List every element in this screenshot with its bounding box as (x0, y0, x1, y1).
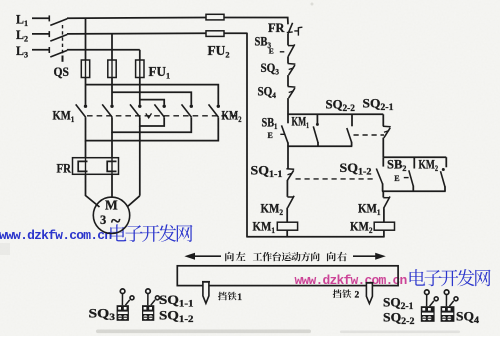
wire L1 feeder to KM2 contact 3 (86, 85, 219, 105)
contactor KM1 main contact 2 (110, 105, 113, 108)
wire phase U to FR (85, 141, 87, 158)
wire L2 feeder to KM2 contact 2 (112, 92, 191, 104)
limit switch SQ1-1 NC contact (287, 146, 289, 169)
FR thermal linkage symbol (294, 27, 302, 35)
wire SQ4 to branch node (287, 98, 289, 114)
stop dog 1 (dang-tie 1) (203, 282, 209, 303)
limit switch SQ2-1 NC contact (382, 114, 384, 126)
start button SB2 NO contact (413, 157, 415, 168)
wire FR to motor V (111, 174, 113, 198)
wire L1 lead (32, 17, 49, 19)
stop button SB3 NC contact (288, 45, 294, 47)
limit switch SQ4 NC contact (288, 86, 296, 89)
left control rail (246, 33, 248, 237)
FR heater element 2 (107, 161, 116, 171)
wire FU2-2 to left rail (224, 32, 247, 34)
wire SQ3 to SQ4 (287, 75, 289, 86)
switch QS pole 3 (48, 47, 50, 53)
contactor KM2 main contact 3 (217, 105, 220, 108)
wire FR to SB3 (287, 34, 289, 46)
svg-text:~: ~ (111, 211, 121, 231)
wire SQ1-1 to KM2 interlock (286, 180, 288, 197)
fuse FU2 element 1 (206, 14, 224, 20)
left direction arrow (191, 255, 221, 257)
wire L3 feeder to KM2 contact 1 (140, 100, 164, 105)
contactor coil KM2 (374, 222, 394, 230)
switch QS pole 1 (48, 15, 50, 21)
branch top wire (287, 113, 383, 115)
worktable rectangle (177, 266, 398, 286)
contactor KM1 main contact 3 (138, 105, 141, 108)
auxiliary contact KM2 NO (445, 157, 447, 167)
QS linkage dashed line (62, 25, 64, 55)
limit switch SQ4 device icon (445, 295, 447, 307)
svg-text:E: E (268, 131, 273, 140)
contactor coil KM1 (277, 222, 297, 230)
fuse FU1 element 2 (108, 60, 116, 78)
motor M circle (93, 197, 129, 233)
fuse FU2 element 2 (206, 31, 224, 37)
limit switch SQ2-2 NO contact (351, 114, 353, 126)
start button SB1 NO contact (287, 114, 289, 123)
FR heater element 1 (78, 161, 87, 171)
watermark bottom: CJK site name (410, 269, 426, 286)
label xiang-zuo (leftward) (225, 252, 234, 262)
limit switch SQ1 device icon (147, 294, 149, 306)
fuse FU1 element 1 (81, 60, 89, 78)
contactor KM1 main contact 1 (84, 105, 87, 108)
wire SB3 to SQ3 (287, 56, 289, 63)
fuse FU1 element 3 (136, 60, 144, 78)
svg-text:QS: QS (54, 65, 70, 79)
wire L3 lead (32, 49, 49, 51)
wire FU2-1 to FR contact (224, 18, 288, 25)
interlock KM2 NC contact (287, 196, 293, 198)
contactor KM2 main contact 1 (163, 105, 166, 108)
stop dog 2 label (333, 289, 342, 298)
wire phase W to motor (139, 126, 141, 196)
svg-text:E: E (394, 174, 399, 183)
branch bottom wire (287, 145, 352, 147)
wire L3 drop to FU1 (139, 50, 141, 60)
wire L2 lead (32, 33, 49, 35)
wire FR to motor U (86, 174, 100, 207)
limit switch SQ3 device icon (121, 294, 123, 306)
wire KM1-2 / KM2-2 crossover (112, 117, 191, 132)
linkage arrow marker (146, 113, 152, 118)
KM1-KM2 linkage dashed line (87, 115, 239, 117)
svg-text:2: 2 (355, 291, 360, 301)
right direction arrow (353, 255, 379, 257)
watermark left: CJK site name (110, 224, 126, 241)
svg-text:1: 1 (237, 293, 242, 303)
svg-text:FR: FR (268, 21, 285, 35)
wire KM1-1 / KM2-3 crossover (86, 117, 219, 140)
limit switch SQ3 NC contact (288, 63, 296, 66)
wire KM1-3 / KM2-1 crossover (140, 117, 164, 126)
scan speckle (311, 3, 314, 6)
parallel branch top wire (383, 156, 446, 158)
wire FU1-1 to KM1 contact 1 (85, 78, 87, 105)
auxiliary contact KM1 NO (316, 114, 318, 123)
limit switch SQ1-2 NO contact (382, 157, 384, 166)
svg-text:FR: FR (57, 162, 72, 176)
thermal relay FR box (73, 158, 119, 175)
svg-text:E: E (269, 46, 274, 55)
svg-text:www.dzkfw.com.cn: www.dzkfw.com.cn (0, 228, 112, 243)
parallel branch bottom wire (382, 190, 446, 192)
bottom control rail (246, 236, 384, 238)
wire SQ2-1 to SB2 branch (382, 138, 384, 158)
stop dog 1 label (218, 292, 227, 301)
wire SB2 branch to KM1 interlock (382, 191, 384, 197)
wire W into motor (127, 196, 140, 207)
thermal relay FR NC contact (288, 23, 293, 34)
wire FU1-3 to KM1 contact 3 (139, 78, 141, 105)
switch QS pole 2 (48, 31, 50, 37)
svg-text:3: 3 (100, 213, 106, 227)
SQ1 linkage dashed line (296, 178, 377, 180)
wire L1 to FU2 (67, 17, 206, 20)
wire L2 drop to FU1 (111, 34, 113, 60)
interlock KM1 NC contact (383, 197, 389, 199)
stop dog 2 (dang-tie 2) (366, 283, 372, 304)
wire L1 drop to FU1 (85, 18, 87, 60)
limit switch SQ2 device icon (426, 295, 428, 307)
wire phase V to FR (111, 132, 113, 157)
wire L3 to fuse drop (67, 49, 140, 51)
wire FU1-2 to KM1 contact 2 (111, 78, 113, 105)
label worktable motion direction (253, 253, 262, 261)
label xiang-you (rightward) (327, 252, 336, 262)
contactor KM2 main contact 2 (190, 105, 193, 108)
wire L2 to FU2 (67, 32, 206, 35)
SQ2 linkage dashed line (354, 134, 385, 136)
